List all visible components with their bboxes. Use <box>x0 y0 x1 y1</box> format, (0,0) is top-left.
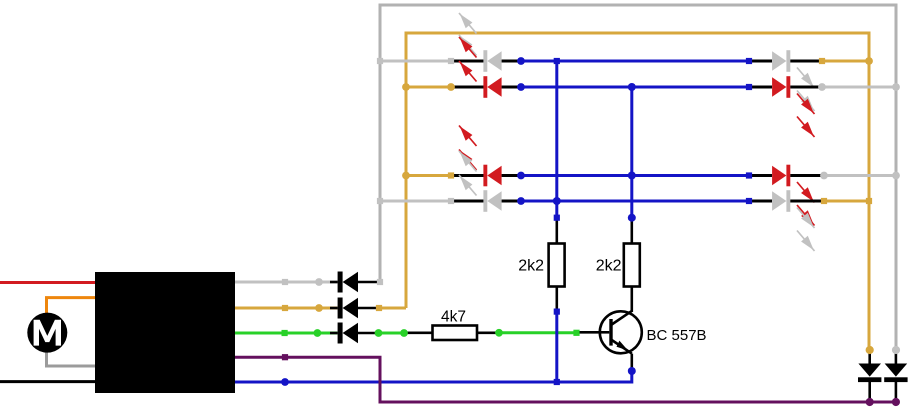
wire row2 blue <box>521 86 749 89</box>
node blue bus / column A <box>554 379 560 385</box>
node green pigtail pin <box>282 330 288 336</box>
wire gold pigtail from box <box>235 307 338 310</box>
wire row3 right black stub <box>790 174 824 177</box>
wire row2 mid black stub <box>502 86 521 89</box>
wire row3 right LED black stub left <box>749 174 772 177</box>
LED red row3 left <box>483 165 501 187</box>
wire row3 left gold <box>406 174 451 177</box>
node gray frame / row2 right <box>892 83 900 91</box>
node gray pigtail / D1 wire <box>315 278 323 286</box>
wire orange pigtail to motor <box>47 298 96 313</box>
motor M1 <box>27 313 67 353</box>
node row2 blue end <box>746 84 752 90</box>
wire green base <box>499 331 577 334</box>
wire gold bus <box>406 33 869 350</box>
node emitter blue start <box>628 367 636 375</box>
node gray frame / row1 left <box>377 58 383 64</box>
node purple bus / diode D4 cathode <box>866 398 874 406</box>
label R1 2k2 <box>518 258 544 275</box>
wire gray pigtail from box <box>235 281 338 284</box>
wire row1 blue <box>521 60 749 63</box>
wire row1 right gold <box>822 60 869 63</box>
wire blue column A <box>555 61 558 218</box>
node row3 blue start <box>517 172 525 180</box>
wire black lead to R3 <box>404 331 433 334</box>
wire row1 left black stub <box>451 60 484 63</box>
wire green pigtail from box <box>235 332 338 335</box>
node green / R3 lead <box>400 329 408 337</box>
label BC 557B <box>647 327 707 344</box>
wire purple net <box>235 357 897 402</box>
node column B / row3 <box>628 172 636 180</box>
resistor R2 2k2 <box>624 244 640 287</box>
wire blue column B <box>630 87 633 218</box>
node row3 left wire end <box>448 172 454 178</box>
node R3 / green base wire <box>495 329 503 337</box>
wire row4 blue <box>521 200 749 203</box>
wire row2 left black stub <box>451 86 484 89</box>
LED arrows white row4 right <box>797 208 815 252</box>
LED arrows white row1 left <box>459 13 477 56</box>
node gray pigtail pin <box>282 279 288 285</box>
node gold pigtail pin <box>282 305 288 311</box>
wire gold after D2 <box>379 307 406 310</box>
LED arrows red row2 right <box>797 94 815 138</box>
node row4 left wire end <box>448 198 454 204</box>
wire black collector lead <box>630 287 633 313</box>
node row1 blue end <box>746 58 752 64</box>
node gray frame / row4 left <box>377 198 383 204</box>
node R1 bottom blue start <box>554 309 560 315</box>
LED arrows white row1 right <box>797 68 815 112</box>
node row4 blue start <box>517 197 525 205</box>
wire row4 right LED black stub left <box>749 200 772 203</box>
wire row1 right black stub of LED <box>502 60 521 63</box>
decoder box <box>95 272 235 393</box>
LED white row1 right <box>772 50 790 72</box>
node column A bottom <box>554 215 560 221</box>
wire black pigtail <box>0 380 95 383</box>
node row2 right wire start <box>818 83 826 91</box>
node gold bus / row4 right <box>866 198 872 204</box>
node gray frame bottom / diode D1 cathode <box>377 279 383 285</box>
wire row3 right gray <box>824 174 896 177</box>
wire row4 left black stub <box>451 200 484 203</box>
node row2 blue start <box>517 83 525 91</box>
LED arrows red row3 right <box>797 182 815 226</box>
svg-text:2k2: 2k2 <box>518 258 544 275</box>
node row1 blue start <box>517 57 525 65</box>
wire row4 right black stub <box>790 200 824 203</box>
wire blue emitter to bus <box>285 371 632 382</box>
label R2 2k2 <box>596 258 622 275</box>
svg-text:BC 557B: BC 557B <box>647 327 707 344</box>
node row3 blue end <box>746 172 752 178</box>
node green base wire end <box>573 330 579 336</box>
wire row2 right gray <box>822 86 896 89</box>
wire row2 right LED black stub left <box>749 86 772 89</box>
label 4k7 <box>441 309 466 326</box>
node gray frame / row3 right <box>892 172 900 180</box>
node row4 blue end <box>746 198 752 204</box>
diode D2 <box>330 298 379 319</box>
node column B / row2 <box>628 83 636 91</box>
transistor Q1 BC557B <box>600 311 642 354</box>
LED white row4 right <box>772 190 790 212</box>
wire row3 mid black stub <box>502 174 521 177</box>
LED white row1 left <box>483 50 501 72</box>
node row1 right wire start <box>819 58 825 64</box>
LED red row2 right <box>772 76 790 98</box>
wire gray frame net <box>379 4 898 351</box>
node row2 left wire end <box>447 83 455 91</box>
wire row3 blue <box>521 174 749 177</box>
wire row3 left black stub <box>451 174 484 177</box>
LED white row4 left <box>483 190 501 212</box>
wire red pigtail <box>0 281 95 284</box>
wire row1 right black stub <box>790 60 822 63</box>
wire black lead after R3 <box>477 331 499 334</box>
diode D1 <box>330 272 380 293</box>
node gold pigtail / D2 wire <box>315 304 323 312</box>
wire row2 right black stub <box>790 86 822 89</box>
wire row1 right LED black stub left <box>749 60 772 63</box>
LED arrows red row3 left <box>459 126 477 171</box>
resistor R3 4k7 <box>433 326 478 341</box>
wire row1 left gray <box>380 60 451 63</box>
wire row4 left gray <box>380 200 451 203</box>
node gold column / row2 left <box>402 83 410 91</box>
node purple bus / diode D5 cathode <box>892 398 900 406</box>
node D3 cathode wire <box>375 329 383 337</box>
resistor R1 2k2 <box>549 244 565 287</box>
node row3 right wire start <box>820 172 828 180</box>
node row4 right wire start <box>821 198 827 204</box>
wire black lead to resistor R2 <box>630 218 633 244</box>
node green pigtail / D3 wire <box>314 329 322 337</box>
node column B bottom <box>628 214 636 222</box>
wire gray motor return <box>47 352 96 366</box>
node gold bus / row1 right <box>865 57 873 65</box>
wire blue pigtail from box <box>235 381 285 384</box>
node purple pigtail pin <box>282 354 288 360</box>
wire row4 mid black stub <box>502 200 521 203</box>
svg-text:2k2: 2k2 <box>596 258 622 275</box>
svg-text:4k7: 4k7 <box>441 309 466 326</box>
node gold bus / diode D4 anode <box>866 346 874 354</box>
wire black base lead <box>577 331 601 334</box>
wire row2 left gold <box>406 86 451 89</box>
wire black emitter lead <box>630 354 633 371</box>
LED red row2 left <box>483 76 501 98</box>
wire black lead below R1 <box>555 287 558 312</box>
node gold column / row3 left <box>402 172 410 180</box>
node column A / row4 <box>553 197 561 205</box>
wire row4 right gold <box>824 200 869 203</box>
node row1 left wire end <box>448 58 454 64</box>
node D2 cathode wire <box>376 305 382 311</box>
wire green after D3 <box>379 332 405 335</box>
wire blue below R1 <box>555 312 558 383</box>
LED arrows red row2 left <box>459 37 477 82</box>
wire black lead to resistor R1 <box>555 218 558 244</box>
diode D5 <box>884 350 907 402</box>
node gray frame / diode D5 anode <box>892 346 900 354</box>
diode D4 <box>858 350 881 402</box>
LED arrows white row4 left <box>459 151 477 196</box>
diode D3 <box>330 323 379 344</box>
LED red row3 right <box>772 165 790 187</box>
node column A / row1 <box>554 58 560 64</box>
node blue pigtail pin <box>281 378 289 386</box>
